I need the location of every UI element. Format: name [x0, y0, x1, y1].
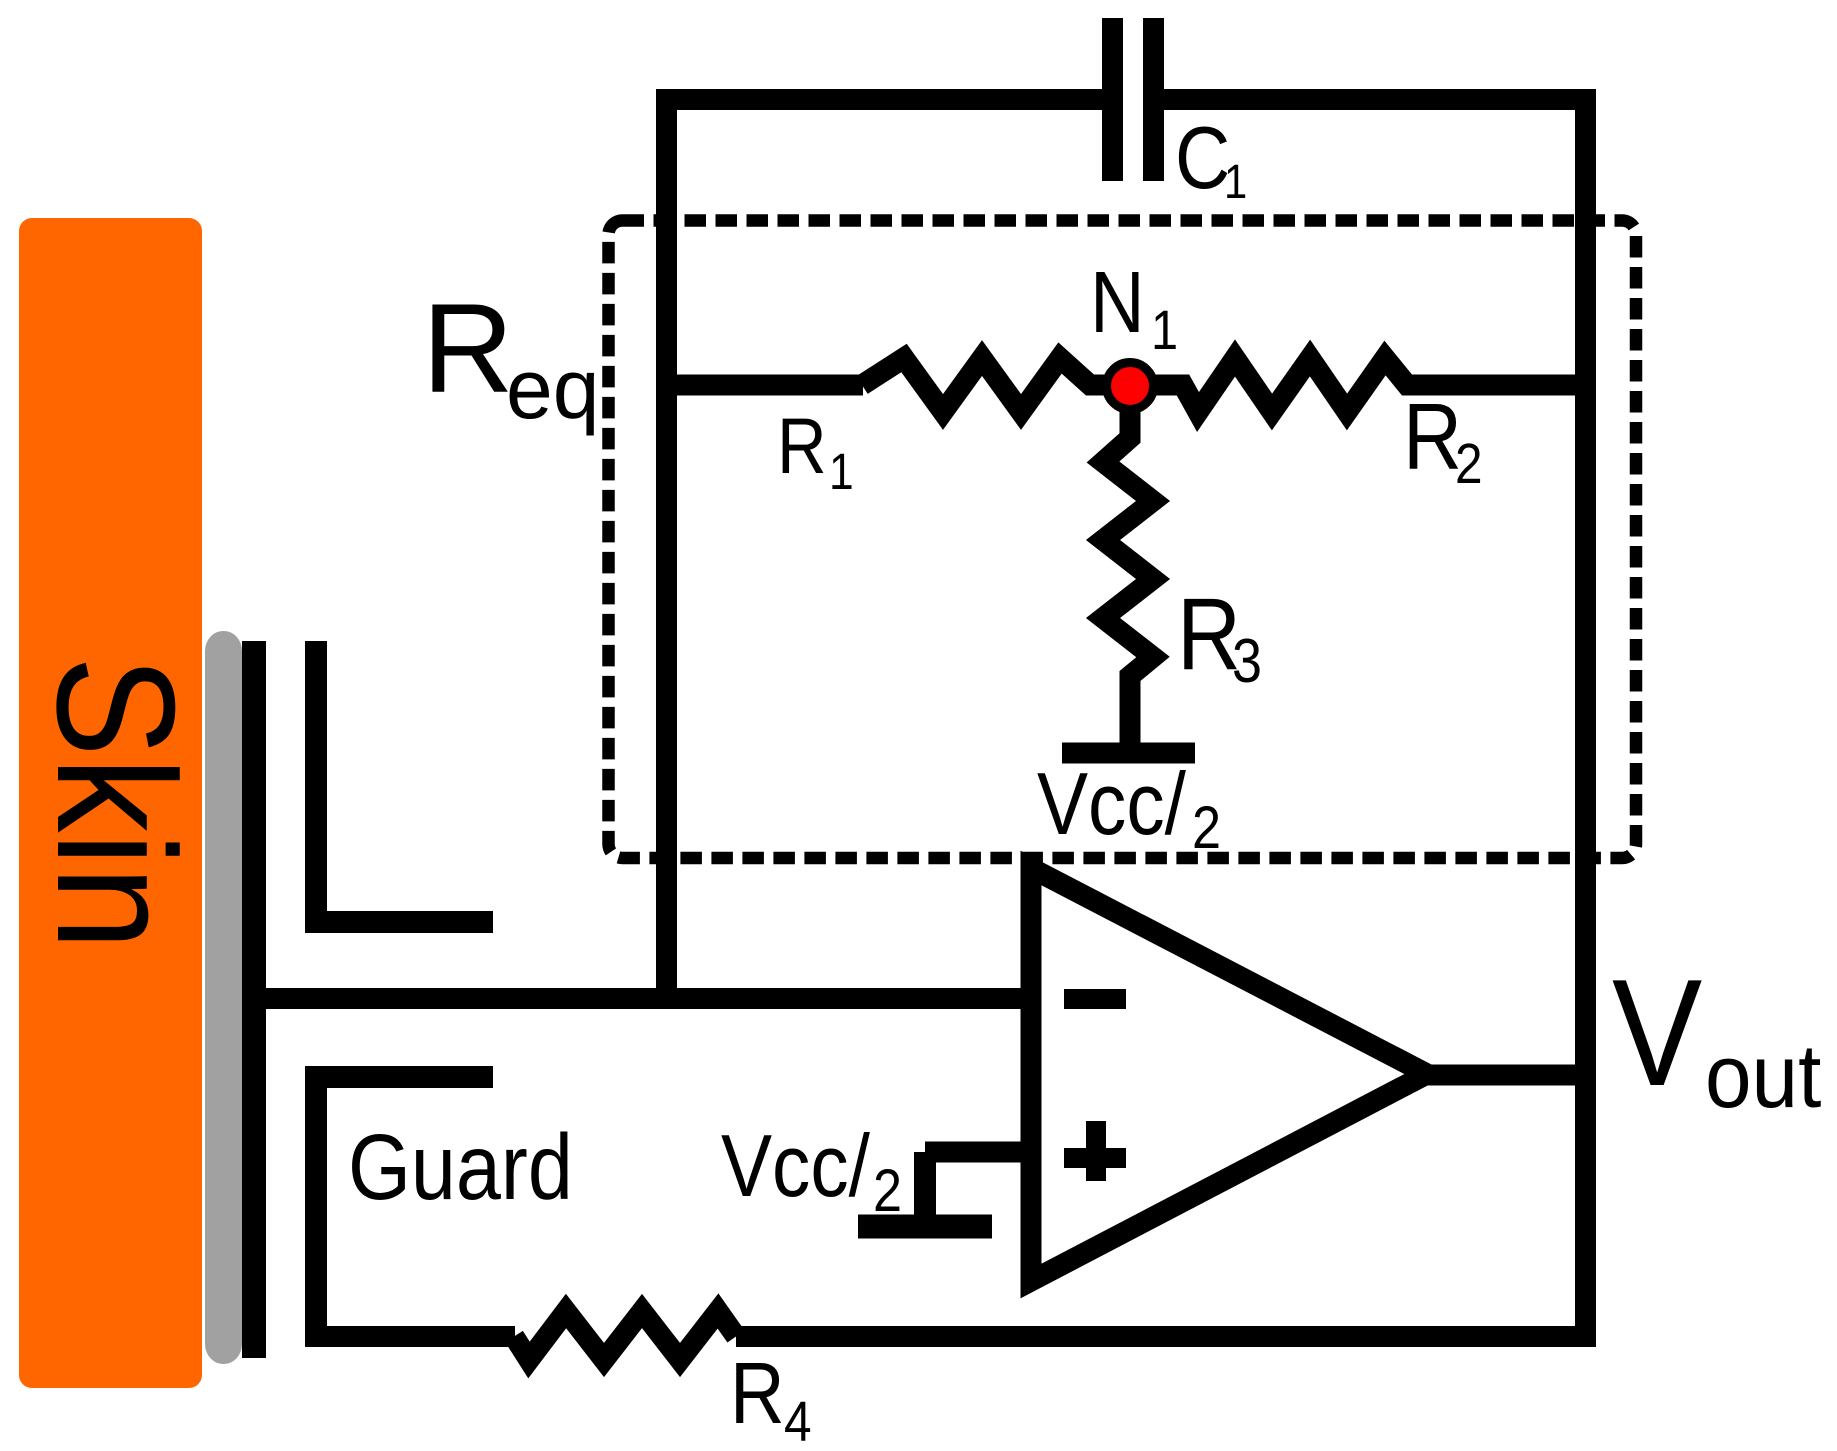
svg-text:4: 4	[784, 1391, 812, 1451]
label R4	[730, 1345, 812, 1451]
svg-text:Vcc/: Vcc/	[721, 1117, 870, 1215]
label N1	[1090, 254, 1178, 362]
wire: stub into R1	[667, 375, 864, 396]
label Vcc/2 (under R3)	[1037, 755, 1221, 861]
svg-text:R: R	[1403, 384, 1462, 490]
svg-text:1: 1	[1151, 299, 1178, 362]
svg-text:1: 1	[1224, 154, 1247, 208]
wire: bottom guard loop into R4	[306, 1326, 515, 1347]
label Req	[422, 277, 599, 436]
label C1	[1175, 109, 1247, 209]
op-amp minus symbol	[1064, 989, 1126, 1009]
resistor R3	[1103, 386, 1153, 753]
label R2	[1403, 384, 1483, 496]
electrode gel layer (gray)	[205, 631, 242, 1364]
label Vout	[1612, 949, 1821, 1127]
svg-text:3: 3	[1232, 627, 1262, 696]
svg-text:Skin: Skin	[22, 656, 210, 950]
Vcc/2 supply terminal under R3	[1062, 743, 1195, 764]
electrode plate (black bar)	[242, 641, 266, 1358]
label R3	[1177, 577, 1262, 696]
svg-text:2: 2	[1455, 433, 1483, 496]
wire: electrode to op-amp inverting input	[256, 988, 1036, 1009]
label R1	[777, 402, 854, 501]
svg-text:out: out	[1705, 1026, 1821, 1126]
node N1 (red junction dot)	[1107, 363, 1154, 410]
wire: left vertical feedback branch	[656, 89, 677, 999]
op-amp U1	[1031, 868, 1427, 1281]
resistor R4	[514, 1311, 736, 1360]
svg-text:R: R	[730, 1345, 785, 1442]
svg-text:2: 2	[1192, 794, 1221, 861]
svg-text:R: R	[422, 277, 514, 419]
svg-text:1: 1	[829, 444, 854, 501]
svg-text:V: V	[1612, 949, 1702, 1118]
svg-text:eq: eq	[506, 342, 599, 436]
electrode lead bracket (upper L)	[316, 641, 493, 922]
guard bracket	[316, 1077, 493, 1347]
label Vcc/2 (non-inverting input)	[721, 1117, 902, 1224]
skin electrode pad (orange)	[19, 218, 202, 1388]
svg-text:C: C	[1175, 109, 1230, 207]
op-amp plus symbol	[1064, 1121, 1126, 1181]
wire: right vertical (C1 / R2 to Vout)	[1575, 89, 1596, 1347]
wire: R4 to right vertical	[736, 1326, 1596, 1347]
label Guard	[348, 1116, 573, 1219]
svg-text:Vcc/: Vcc/	[1037, 755, 1186, 853]
resistor R2	[1130, 358, 1596, 412]
svg-text:2: 2	[873, 1157, 902, 1224]
Vcc/2 source at plus input	[858, 1152, 1036, 1232]
skin label	[22, 656, 210, 950]
wire: op-amp output to Vout	[1420, 1065, 1596, 1086]
wire: top feedback (right of C1)	[1164, 89, 1596, 110]
dashed box Req	[609, 221, 1637, 859]
svg-text:N: N	[1090, 254, 1145, 351]
resistor R1	[862, 358, 1130, 412]
svg-text:R: R	[777, 402, 827, 491]
capacitor C1	[1113, 18, 1154, 181]
wire: top feedback (left of C1)	[656, 89, 1103, 110]
svg-text:Guard: Guard	[348, 1116, 573, 1219]
